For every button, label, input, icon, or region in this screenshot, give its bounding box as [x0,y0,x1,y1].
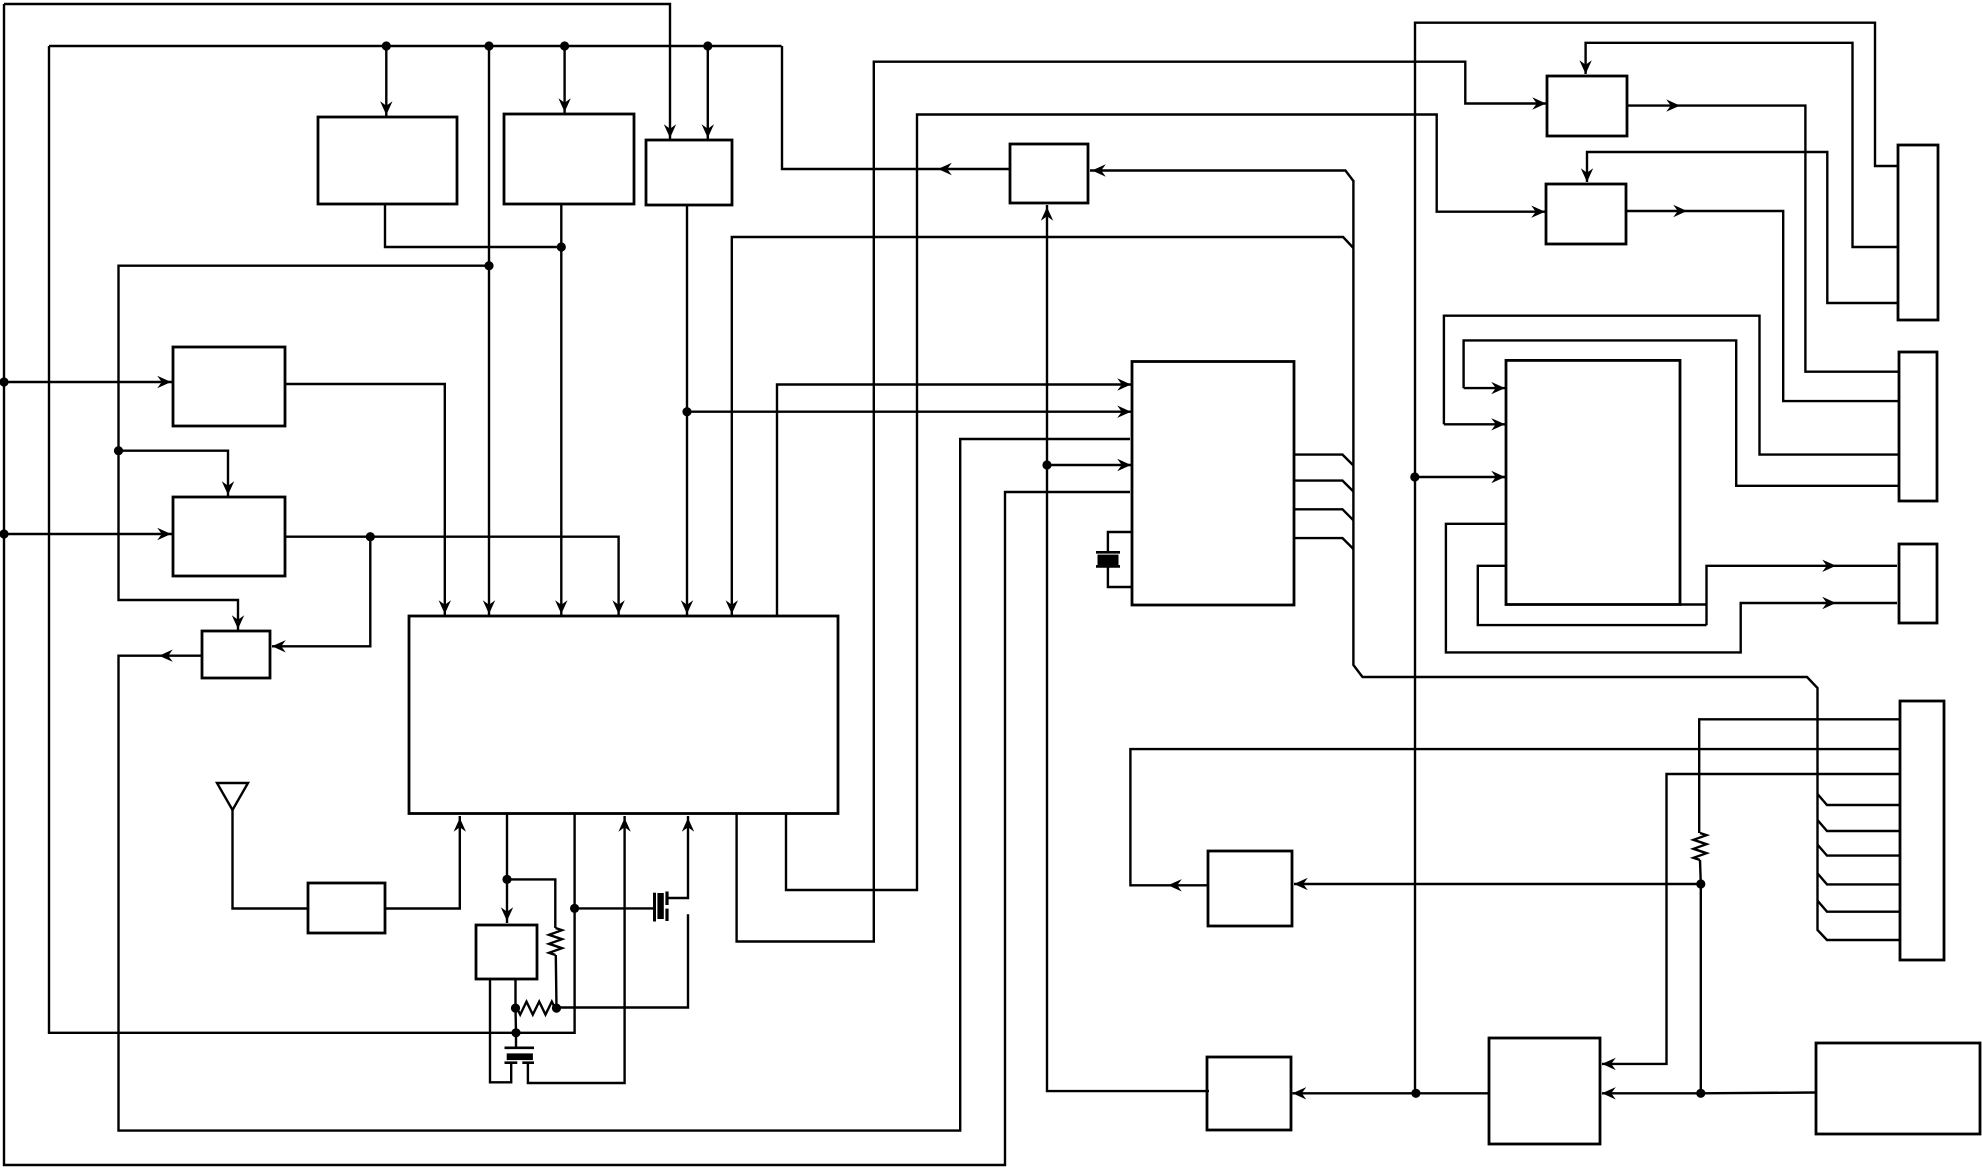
wire G to N [737,62,1546,942]
wire G to K pin1 [777,378,1131,616]
junction E-out [366,532,375,541]
wire border to E [4,528,173,540]
wire K out4 [1294,538,1353,549]
wire A to node [385,204,561,247]
wire bus to J [1090,164,1353,181]
transistor Q1 [655,892,668,922]
wire gate [575,907,653,909]
junction AB [557,242,566,251]
wire X1 bottom stub [1108,568,1132,588]
wire X1 top stub [1108,532,1132,551]
wire bus to C [702,46,714,140]
wire node to K pin4 [1047,459,1131,471]
block K mcu [1132,362,1294,606]
wire Q1 drain to G [667,816,694,898]
wire N to Q1 [1627,99,1899,371]
wire node to R1 [507,879,555,928]
wire O to Q2 [1626,205,1899,401]
wire V to U [1602,1087,1816,1099]
block P connector [1898,145,1938,320]
wire riser to E top [119,451,235,497]
wire left frame border to K pin5 [4,4,1130,1165]
wire top frame to C [4,4,676,140]
junction bus-G [484,41,493,50]
bus data vertical [1353,180,1900,940]
wire K out2 [1294,481,1353,492]
wire I lead right [514,979,517,1047]
wire F to K pin3 [119,439,1131,1131]
junction G-feed mid [484,261,493,270]
bus branch to T y911 [1818,901,1901,912]
block J [1010,144,1088,203]
wire riser to F top [119,451,245,631]
wire L to T [1130,749,1900,891]
wire Q1 source [558,914,688,1007]
bus branch to T y855 [1818,845,1901,856]
junction xtal tap [511,1028,520,1037]
bus branch to T y805 [1818,794,1901,805]
block D [173,347,285,426]
wire node to L right [1294,878,1701,890]
antenna ANT1 [217,783,308,909]
wire G to O [786,115,1545,891]
block T connector [1900,701,1944,960]
wire R1 to node [555,955,558,1008]
junction bus-A [382,41,391,50]
junction R2 right [552,1004,561,1013]
wire Q4 net [1464,340,1899,485]
wire net1415 [1415,23,1898,1094]
junction border-E [0,529,9,538]
block B [504,114,634,204]
junction R3-UV [1696,1089,1705,1098]
wire C to K pin2 [687,406,1131,418]
junction G-I [502,875,511,884]
block Q connector [1899,352,1937,501]
wire E to G [285,537,625,616]
wire T pin1 [1699,719,1900,833]
block I oscillator [476,925,537,979]
junction R3-L [1696,879,1705,888]
wire node to R pin1 [1464,382,1505,394]
wire bus to G [483,46,495,616]
wire P2 to N [1579,43,1898,247]
resistor R3 [1694,833,1707,860]
wire K out3 [1294,509,1353,520]
resistor R2 [517,1002,555,1015]
wire R3 to node [1699,860,1702,1093]
junction gate tap [570,904,579,913]
block L [1208,851,1292,926]
wire node to R pin3 [1415,471,1505,483]
block S connector [1899,544,1937,623]
block E [173,497,285,576]
block M [1207,1057,1291,1130]
junction J-K4 [1042,460,1051,469]
block A [318,117,457,204]
wire C to G [681,205,693,616]
resistor R1 [549,928,562,955]
wire node to F right [272,537,370,653]
wire G to I [501,814,513,924]
block F [202,631,270,678]
junction C-K [682,407,691,416]
junction border-D [0,377,9,386]
crystal X2 [505,1048,535,1063]
junction net1415-R [1410,472,1419,481]
wire bus to A [380,46,392,117]
bus branch to T y831 [1818,820,1901,831]
wire J to M [1041,205,1209,1091]
bus branch to T y884 [1818,873,1901,884]
block C [646,140,732,205]
wire left riser [119,266,490,451]
block N [1547,76,1627,136]
wire R to S2 [1446,524,1897,653]
wire K out1 [1294,455,1353,466]
crystal X1 [1096,552,1120,566]
wire U to M [1293,1087,1490,1099]
wire border to D [4,376,173,388]
wire H to G [385,816,466,909]
wire X2 right to G [528,816,631,1083]
block H rf front-end [308,883,385,933]
block R [1506,360,1680,604]
wire bus to J left [782,46,1010,175]
wire I lead left [490,979,511,1082]
junction R2 left [511,1004,520,1013]
block V [1816,1043,1980,1134]
junction riser-E [114,446,123,455]
wire G osc net [49,46,575,1033]
wire T to U [1602,774,1900,1070]
junction bus-B [560,41,569,50]
block U [1489,1038,1600,1144]
wire P3 to O [1581,152,1898,303]
wire Q3 net [1444,316,1899,455]
wire bus to B [558,46,570,114]
block G main controller [409,616,838,814]
wire top bus [49,45,782,47]
wire D to G [285,384,451,616]
wire bus-branch to G [726,237,1354,616]
junction bus-C [703,41,712,50]
wire B to G [555,204,567,616]
junction UM-1415 [1411,1089,1420,1098]
wire R to S1 [1478,560,1897,626]
wire node to R pin2 [1444,418,1505,430]
block O [1546,184,1626,244]
